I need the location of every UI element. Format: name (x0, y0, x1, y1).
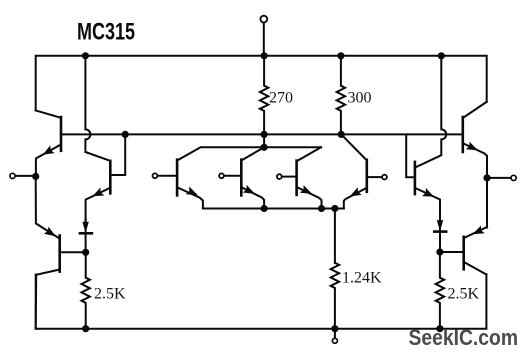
transistor QB collector wire (241, 147, 264, 160)
transistor Q2 emitter arrow (93, 187, 105, 196)
transistor Q8 base wire (440, 251, 463, 253)
transistor Q5 base bar (414, 162, 417, 194)
node base bus junction G (338, 131, 345, 138)
wire emitter rail (203, 208, 344, 210)
transistor QB emitter arrow (243, 185, 255, 194)
diode D1 arrow (82, 222, 88, 233)
transistor Q5 emitter wire (415, 188, 440, 222)
terminal VEE bottom (334, 329, 336, 338)
node top rail junction B (261, 52, 268, 59)
resistor 2.5K left (82, 252, 90, 328)
transistor Q4 emitter arrow (350, 187, 362, 196)
node bottom rail junction L (331, 325, 338, 332)
transistor QC collector wire (297, 147, 322, 161)
diode D2 anode wire (439, 219, 441, 232)
transistor Q5 emitter arrow (422, 188, 434, 197)
wire top supply rail (36, 56, 487, 111)
transistor Q5 base wire (L from base bus) (406, 134, 414, 177)
node top rail junction D (438, 52, 445, 59)
transistor Q3 collector wire (36, 270, 60, 329)
svg-text:300: 300 (348, 90, 372, 107)
diode D2 cathode bar (434, 230, 446, 233)
wire link F to collector node (263, 134, 265, 147)
transistor Q6 base bar (461, 117, 464, 152)
transistor QB emitter wire (241, 187, 264, 208)
wire output to Q8 emitter (486, 178, 488, 228)
resistor 270 (260, 56, 268, 135)
wire crossover hop right (vertical from rail D over base bus) (416, 56, 447, 168)
transistor Q4 emitter wire (344, 188, 367, 209)
node collector node H (261, 144, 268, 151)
wire crossover hop left (vertical from rail A over base bus) (85, 56, 110, 161)
svg-text:SeekIC.com: SeekIC.com (409, 325, 519, 350)
transistor Q3 emitter arrow (44, 227, 56, 237)
terminal QA base input (158, 175, 176, 177)
wire 1.24K top lead (334, 209, 336, 263)
transistor QC emitter wire (297, 187, 322, 209)
terminal VCC top (263, 24, 265, 56)
diode D1 anode wire (85, 219, 87, 233)
transistor QA emitter arrow (186, 187, 198, 196)
node output junction R (483, 174, 490, 181)
transistor Q2 base bar (109, 161, 112, 193)
transistor Q1 emitter arrow (43, 145, 55, 154)
node emitter rail junction O (318, 205, 325, 212)
node right diode junction Q (436, 248, 443, 255)
transistor Q3 base wire (60, 251, 86, 253)
transistor QA collector wire (177, 147, 321, 160)
resistor 300 (337, 56, 345, 135)
svg-text:1.24K: 1.24K (342, 270, 382, 287)
node left diode junction J (82, 249, 89, 256)
transistor Q6 emitter arrow (466, 142, 478, 151)
node emitter rail junction P (331, 205, 338, 212)
resistor 2.5K right (436, 252, 444, 329)
transistor Q6 collector wire (463, 102, 487, 118)
node top rail junction C (337, 52, 344, 59)
transistor QB base bar (240, 160, 243, 196)
terminal QB base input (225, 175, 241, 177)
diode D2 cathode wire (439, 232, 441, 252)
terminal output right (487, 177, 510, 179)
terminal QC base input (282, 176, 295, 178)
terminal input left (17, 175, 36, 177)
transistor Q8 emitter wire (465, 227, 487, 238)
node bottom rail junction M (436, 325, 443, 332)
transistor Q1 emitter wire (36, 145, 61, 177)
transistor QA base bar (176, 160, 179, 196)
diode D1 cathode bar (80, 232, 92, 235)
terminal Q4 base input (368, 176, 381, 178)
transistor Q2 emitter wire (86, 188, 111, 222)
transistor QC emitter arrow (300, 185, 312, 194)
transistor Q8 collector wire (464, 262, 487, 275)
transistor Q1 base bar (60, 117, 63, 151)
node base bus junction E (122, 131, 129, 138)
transistor Q4 collector wire (341, 134, 367, 160)
transistor QA emitter wire (177, 187, 203, 208)
node input junction I (32, 173, 39, 180)
diode D2 arrow (437, 220, 443, 231)
transistor Q4 base bar (365, 160, 368, 192)
node top rail junction A (82, 52, 89, 59)
transistor Q8 base bar (462, 237, 465, 269)
wire bottom rail (36, 274, 487, 329)
resistor 1.24K (331, 263, 339, 329)
svg-text:2.5K: 2.5K (94, 286, 126, 303)
svg-text:MC315: MC315 (77, 19, 135, 46)
svg-text:270: 270 (269, 90, 293, 107)
node emitter rail junction N (261, 205, 268, 212)
wire base bus rail-2 (61, 133, 463, 135)
transistor Q3 base bar (58, 236, 61, 272)
diode D1 cathode wire (85, 233, 87, 252)
node base bus junction F (261, 131, 268, 138)
transistor Q2 base wire (L from node E) (112, 134, 126, 175)
transistor Q1 collector wire (36, 111, 61, 118)
transistor Q3 emitter wire (36, 176, 59, 238)
transistor Q8 emitter arrow (473, 226, 485, 235)
svg-text:2.5K: 2.5K (448, 286, 480, 303)
node bottom rail junction K (82, 325, 89, 332)
transistor Q6 emitter wire (464, 144, 488, 178)
transistor QC base bar (295, 161, 298, 195)
